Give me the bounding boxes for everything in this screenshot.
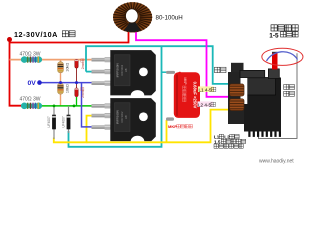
svg-text:10kΩ: 10kΩ <box>65 63 69 72</box>
svg-text:MKP: MKP <box>168 124 177 129</box>
svg-text:HB: HB <box>124 68 128 72</box>
svg-text:L2 4-5: L2 4-5 <box>198 102 211 107</box>
svg-text:IOR 9302: IOR 9302 <box>120 64 124 76</box>
svg-text:1.5: 1.5 <box>214 139 221 144</box>
svg-text:MKP: MKP <box>183 78 187 85</box>
svg-text:80-100uH: 80-100uH <box>156 15 183 22</box>
svg-text:12-30V/10A: 12-30V/10A <box>14 30 58 39</box>
svg-text:2mm: 2mm <box>81 62 85 70</box>
svg-text:10kΩ: 10kΩ <box>65 84 69 93</box>
svg-text:IRFP260N: IRFP260N <box>116 110 120 124</box>
svg-text:470Ω 3W: 470Ω 3W <box>20 96 41 102</box>
svg-text:2mm: 2mm <box>81 90 85 98</box>
svg-text:UF4007: UF4007 <box>47 116 51 128</box>
svg-text:0V: 0V <box>28 80 37 87</box>
svg-text:470Ω 3W: 470Ω 3W <box>20 51 41 57</box>
svg-text:0.68uF ×250V: 0.68uF ×250V <box>193 82 198 109</box>
svg-text:IOR 9302: IOR 9302 <box>120 111 124 123</box>
svg-text:www.haodiy.net: www.haodiy.net <box>259 159 294 165</box>
svg-text:IRFP260N: IRFP260N <box>116 63 120 77</box>
svg-text:L2: L2 <box>224 135 230 140</box>
svg-text:HB: HB <box>124 115 128 119</box>
svg-text:L1 4-5: L1 4-5 <box>199 87 212 92</box>
svg-text:1-5: 1-5 <box>269 32 279 39</box>
svg-text:UF4007: UF4007 <box>62 116 66 128</box>
